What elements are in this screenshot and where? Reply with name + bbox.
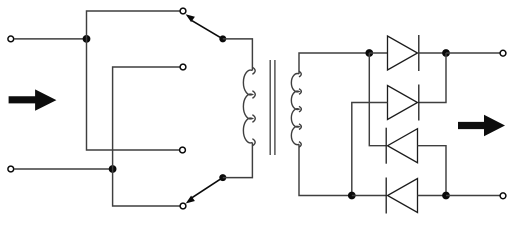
node J2 [109,165,117,173]
wire node C down to diode D2 cathode [419,53,446,103]
wire D4 anode to node D [418,195,447,197]
transformer secondary winding [291,71,301,147]
switch S2 contact a [180,147,186,153]
wire secondary top to node A [299,53,369,74]
node J1 [83,35,91,43]
switch S1 contact b [180,64,186,70]
transformer primary winding [243,67,255,146]
switch S1 arm with arrowhead [186,14,223,39]
wire J2 up to switch contact 2 [113,67,180,169]
transformer core [270,60,275,155]
wire S1 common to primary top [223,39,253,71]
wire J1 up to switch contact 1 [87,11,180,39]
wire S2 common to primary bottom [223,143,253,178]
wire node A down to diode D3 cathode [369,53,386,146]
diode D1 [388,35,419,71]
terminal OUT2 [500,193,506,199]
wire node A to diode D1 anode [369,52,387,54]
wire secondary bottom to node B [299,144,352,195]
terminal IN2 [8,166,14,172]
node C [442,49,450,57]
switch S2 contact b [180,203,186,209]
output flow arrow [458,115,505,137]
diode D2 [388,85,419,121]
switch S2 arm with arrowhead [186,178,223,204]
terminal OUT1 [500,50,506,56]
switch S1 contact a [180,8,186,14]
diode D3 [386,128,417,164]
node A [365,49,373,57]
wire IN1 to node J1 [14,38,86,40]
node D [442,192,450,200]
terminal IN1 [8,36,14,42]
input flow arrow [9,89,57,110]
diode D4 [386,178,417,214]
wire J1 down to switch contact 3 [87,39,180,150]
wire D3 anode to node D [418,146,447,196]
wire node B to diode D4 cathode [352,195,386,197]
wire D2 anode to node B [352,103,388,196]
switch S1 common node [219,35,226,42]
wire J2 down to switch contact 4 [113,169,180,206]
wire D1 cathode to node C [419,52,446,54]
wire IN2 to node J2 [14,168,112,170]
wire node C to terminal OUT1 [446,52,500,54]
node B [348,192,356,200]
switch S2 common node [219,174,226,181]
wire node D to terminal OUT2 [446,195,500,197]
